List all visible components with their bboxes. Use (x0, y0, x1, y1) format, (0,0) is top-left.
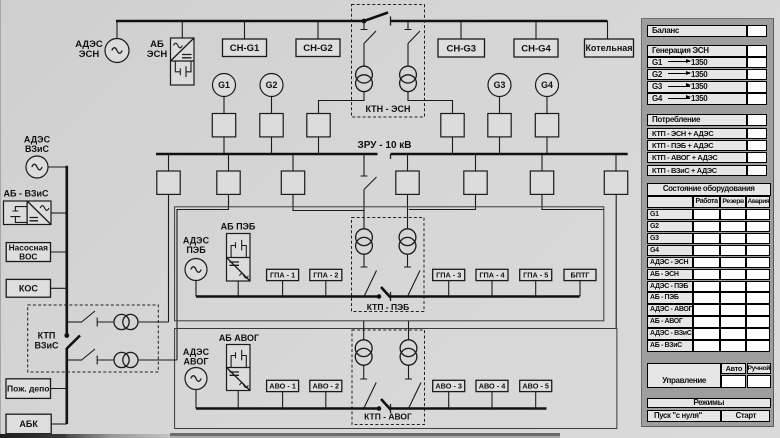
wire ADES PEB to bus (195, 280, 197, 297)
wire AVO-2 to AVOG bus (325, 392, 327, 409)
disconnector KTN right (405, 21, 421, 44)
wire 0.4kV bus left segment (116, 20, 364, 23)
breaker Q-KTN-L (307, 114, 330, 137)
table Generation ESN (647, 45, 747, 57)
load box Nasosnaya VOS (6, 243, 50, 262)
frame AVOG section (175, 329, 617, 429)
generator G1 (213, 74, 236, 97)
disconnector blade KTP-AVOG left (364, 383, 377, 409)
transformer KTP-PEB right (399, 229, 416, 254)
load box BPTG (564, 269, 596, 280)
load box GPA-4 (476, 269, 508, 280)
bus ZRU 10kV right segment (391, 153, 628, 156)
wire PEB feeder left (363, 190, 365, 229)
wire SN-G4 to bus (535, 21, 537, 39)
wire AVO-5 to AVOG bus (535, 392, 537, 409)
transformer KTN right (400, 66, 417, 91)
wire Q-G2 to ZRU bus (271, 137, 273, 154)
svg-text:G4: G4 (541, 80, 553, 90)
load box AVO-5 (520, 380, 552, 391)
dashed enclosure KTP-AVOG (352, 330, 425, 425)
wire SN-G1 to bus (244, 21, 246, 39)
label ADES PEB (183, 236, 210, 256)
wire SN-G3 to bus (460, 21, 462, 39)
disconnector KTN left (361, 21, 377, 44)
generator ADES AVOG (185, 368, 207, 390)
svg-text:G3: G3 (494, 80, 506, 90)
disconnector blade KTP-PEB left (364, 271, 377, 297)
disconnector blade KTP-AVOG right (409, 383, 422, 409)
table Consumption (647, 114, 747, 126)
svg-text:СН-G2: СН-G2 (303, 43, 333, 54)
load box Pozh depo (6, 379, 51, 399)
wire VZiS upper to transformer (97, 321, 113, 323)
svg-text:АДЭС: АДЭС (183, 236, 210, 246)
wire ZRU bus to breaker Q1-VZiS (168, 154, 170, 171)
svg-text:G2: G2 (266, 80, 278, 90)
label ADES ESN (75, 39, 103, 60)
load box GPA-1 (267, 269, 299, 280)
switch bus-tie AVOG closed blade (377, 399, 391, 413)
svg-text:АВО - 5: АВО - 5 (522, 382, 549, 391)
wire GPA-4 to PEB bus (491, 281, 493, 297)
svg-text:АВО - 3: АВО - 3 (435, 382, 462, 391)
wire Q2-VZiS down-jog (177, 194, 229, 360)
transformer KTP-VZiS upper (114, 314, 138, 329)
svg-text:КОС: КОС (19, 284, 38, 294)
wire Q-PEB-R down (407, 194, 409, 228)
load box AVO-4 (476, 380, 508, 391)
wire KTP-AVOG left down (360, 365, 367, 379)
wire Q5-res jog (542, 194, 604, 209)
svg-text:ЭСН: ЭСН (147, 49, 168, 60)
switch VZiS bus closed blade (64, 333, 80, 348)
breaker Q3-res (281, 171, 304, 194)
wire AB-ESN to bus (181, 21, 183, 38)
wire G1 to breaker (223, 96, 225, 114)
wire Q1-VZiS down (168, 194, 170, 322)
svg-text:ПЭБ: ПЭБ (186, 245, 206, 255)
breaker Q-G2 (260, 114, 283, 137)
svg-text:АВО - 2: АВО - 2 (313, 382, 340, 391)
load box GPA-3 (433, 269, 465, 280)
svg-text:КТП - АВОГ: КТП - АВОГ (364, 412, 412, 422)
wire Q4-res jog (409, 194, 476, 209)
wire ZRU bus to breaker Q-PEB-R (407, 154, 409, 171)
svg-text:ГПА - 3: ГПА - 3 (436, 271, 461, 280)
wire 0.4kV bus right segment (391, 20, 608, 23)
bus AVOG left segment (196, 407, 379, 410)
wire KOS to bus (51, 287, 67, 289)
wire KTP-PEB left down (361, 254, 368, 267)
label AB ESN (147, 39, 168, 60)
svg-text:КТН - ЭСН: КТН - ЭСН (365, 104, 410, 114)
wire Q6-res down (615, 194, 617, 328)
transformer KTP-AVOG left (355, 340, 372, 365)
load box SN-G3 (438, 39, 485, 57)
dashed enclosure KTP VZiS (28, 305, 159, 372)
svg-text:СН-G3: СН-G3 (446, 43, 476, 54)
load box GPA-2 (310, 269, 342, 280)
wire G2 to breaker (271, 96, 273, 114)
wire ZRU bus to breaker Q4-res (475, 154, 477, 171)
generator ADES ESN (105, 39, 129, 63)
wire Pozh depo to bus (51, 388, 67, 390)
wire KTP-AVOG right down (405, 365, 412, 379)
transformer KTN left (356, 66, 373, 91)
label ADES AVOG (183, 347, 210, 367)
wire KTN right to transformer (407, 44, 409, 67)
wire GPA-3 to PEB bus (448, 281, 450, 297)
svg-text:КТП: КТП (38, 331, 56, 341)
wire ZRU bus to breaker Q3-res (292, 154, 294, 171)
transformer KTP-AVOG right (400, 340, 417, 365)
disconnector PEB feeder (361, 154, 377, 190)
wire KTN right to breaker Q-KTN (408, 92, 453, 114)
svg-text:АДЭС: АДЭС (183, 347, 210, 357)
breaker Q-PEB-R (396, 171, 419, 194)
disconnector VZiS upper (81, 311, 97, 327)
breaker Q-KTN-R (441, 114, 464, 137)
wire ABK to bus (51, 423, 67, 425)
wire Q-KTN-R to ZRU bus (452, 137, 454, 154)
generator ADES PEB (185, 259, 207, 281)
svg-text:АБК: АБК (19, 419, 38, 429)
wire KTP-PEB right down (404, 254, 411, 267)
svg-text:БПТГ: БПТГ (570, 271, 589, 280)
wire GPA-1 to PEB bus (282, 281, 284, 297)
switch bus-tie PEB closed blade (377, 287, 391, 301)
wire ADES AVOG to bus (195, 389, 197, 409)
wire AB PEB to bus (237, 281, 239, 297)
generator G2 (260, 74, 283, 97)
svg-text:G1: G1 (218, 80, 230, 90)
battery-converter AB PEB (227, 234, 251, 282)
wire Nasosnaya VOS to bus (51, 251, 67, 253)
transformer KTP-VZiS lower (114, 352, 138, 367)
load box AVO-3 (433, 380, 465, 391)
svg-text:СН-G4: СН-G4 (521, 43, 551, 54)
load box SN-G2 (296, 39, 340, 57)
wire VZiS upper to ZRU feeder (139, 321, 169, 323)
load box SN-G4 (514, 39, 558, 57)
svg-text:АДЭС: АДЭС (24, 135, 51, 145)
wire GPA-2 to PEB bus (325, 281, 327, 297)
svg-text:АВОГ: АВОГ (184, 357, 209, 367)
svg-text:ГПА - 1: ГПА - 1 (270, 271, 295, 280)
svg-text:АВО - 1: АВО - 1 (269, 382, 296, 391)
wire VZiS lower to ZRU feeder (139, 359, 177, 361)
svg-text:ВЗиС: ВЗиС (25, 144, 50, 154)
label KTP VZiS (34, 331, 59, 351)
wire VZiS lower branch from bus (67, 359, 81, 361)
bus PEB right segment (391, 295, 580, 298)
wire VZiS upper branch from bus (67, 321, 81, 323)
dashed enclosure KTP-PEB (352, 218, 425, 312)
wire G3 to breaker (499, 96, 501, 114)
label ADES VZiS (24, 135, 51, 155)
wire AB AVOG to bus (237, 391, 239, 409)
disconnector blade KTP-PEB right (408, 271, 421, 297)
breaker Q1-VZiS (157, 171, 180, 194)
svg-text:ЭСН: ЭСН (79, 49, 100, 60)
generator G4 (536, 74, 559, 97)
transformer KTP-PEB left (356, 229, 373, 254)
stub ZRU bus-tie right contact (390, 154, 392, 159)
generator ADES VZiS (26, 156, 48, 178)
bus PEB left segment (196, 295, 379, 298)
svg-text:АБ ПЭБ: АБ ПЭБ (221, 222, 256, 232)
table Balance (647, 25, 747, 36)
svg-text:ЗРУ - 10 кВ: ЗРУ - 10 кВ (357, 140, 411, 151)
wire PEB frame to KTP-AVOG left (363, 321, 365, 340)
svg-text:АВО - 4: АВО - 4 (479, 382, 507, 391)
svg-text:Пож. депо: Пож. депо (7, 384, 49, 394)
svg-text:Котельная: Котельная (585, 43, 632, 53)
svg-text:АБ - ВЗиС: АБ - ВЗиС (3, 189, 49, 199)
wire Q-KTN-L to ZRU bus (318, 137, 320, 154)
svg-text:ВОС: ВОС (19, 252, 37, 262)
battery-converter AB AVOG (227, 345, 251, 391)
wire ZRU bus to breaker Q2-VZiS (228, 154, 230, 171)
wire ZRU bus to breaker Q6-res (615, 154, 617, 171)
svg-text:ГПА - 5: ГПА - 5 (523, 271, 548, 280)
svg-text:КТП - ПЭБ: КТП - ПЭБ (367, 302, 410, 312)
disconnector VZiS lower (81, 349, 97, 365)
bottom window edge strip (0, 434, 66, 438)
breaker Q-G3 (488, 114, 511, 137)
wire PEB frame to KTP-AVOG right (408, 321, 410, 340)
wire Q-G3 to ZRU bus (499, 137, 501, 154)
wire G4 to breaker (546, 96, 548, 114)
load box AVO-2 (310, 380, 342, 391)
breaker Q-G1 (212, 114, 235, 137)
wire AVO-4 to AVOG bus (491, 392, 493, 409)
load box KOS (6, 279, 50, 297)
wire ADES VZiS to bus (48, 166, 67, 168)
table Control (647, 363, 721, 388)
load box AVO-1 (267, 380, 299, 391)
wire AVO-3 to AVOG bus (448, 392, 450, 409)
bus VZiS vertical upper (66, 166, 69, 336)
battery-converter AB ESN (171, 38, 195, 85)
frame PEB section (175, 207, 604, 321)
breaker Q4-res (464, 171, 487, 194)
load box Kotelnaya (585, 39, 634, 57)
wire Kotelnaya to bus (607, 21, 609, 39)
svg-text:СН-G1: СН-G1 (230, 43, 260, 54)
load box GPA-5 (520, 269, 552, 280)
wire Q-G4 to ZRU bus (546, 137, 548, 154)
svg-text:ГПА - 4: ГПА - 4 (479, 271, 505, 280)
bus ZRU 10kV left segment (156, 153, 378, 156)
svg-text:АБ АВОГ: АБ АВОГ (219, 333, 259, 343)
table Modes (647, 398, 771, 409)
wire KTN left to breaker Q-KTN (319, 92, 365, 114)
wire SN-G2 to bus (317, 21, 319, 39)
switch bus-tie ESN (closed blade on 0.4kV bus) (362, 13, 391, 26)
right control panel (0, 0, 780, 1)
left window edge line (0, 0, 1, 438)
wire Q-G1 to ZRU bus (223, 137, 225, 154)
wire ZRU bus to breaker Q5-res (541, 154, 543, 171)
load box ABK (6, 414, 51, 434)
svg-text:ВЗиС: ВЗиС (34, 341, 59, 351)
bus VZiS vertical lower (66, 348, 69, 424)
bus AVOG right segment (391, 407, 547, 410)
wire Q3-res jog (293, 194, 364, 210)
generator G3 (488, 74, 511, 97)
wire GPA-5 to PEB bus (535, 281, 537, 297)
battery-converter AB-VZiS (4, 201, 52, 225)
breaker Q5-res (530, 171, 553, 194)
breaker Q2-VZiS (217, 171, 240, 194)
wire BPTG to PEB bus (579, 281, 581, 297)
wire ADES-ESN to bus (116, 21, 118, 39)
wire AB-VZiS to bus (51, 212, 67, 214)
load box SN-G1 (223, 39, 267, 57)
breaker Q6-res (604, 171, 627, 194)
panel frame (641, 18, 774, 427)
table Equipment status (647, 183, 771, 195)
wire KTN left to transformer (363, 44, 365, 67)
wire VZiS lower to transformer (97, 359, 113, 361)
breaker Q-G4 (535, 114, 558, 137)
wire AVO-1 to AVOG bus (282, 392, 284, 409)
svg-text:ГПА - 2: ГПА - 2 (313, 271, 338, 280)
dashed enclosure KTN-ESN (352, 5, 425, 118)
